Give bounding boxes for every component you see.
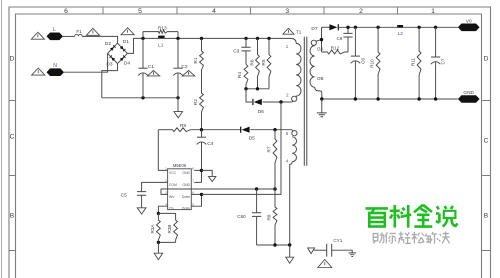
warning triangle after F1 bbox=[86, 28, 99, 35]
diode D2 (bridge NW) bbox=[110, 45, 116, 51]
connector V0 bbox=[458, 24, 480, 32]
transformer T1 primary winding bbox=[296, 43, 302, 97]
inductor L1 bbox=[158, 36, 164, 38]
secondary dot circle OA pin bbox=[311, 40, 316, 45]
wire primary bottom rail bbox=[102, 97, 178, 99]
junction VCC line at R7 bbox=[273, 128, 276, 131]
svg-text:R10: R10 bbox=[369, 59, 374, 68]
svg-text:7: 7 bbox=[192, 179, 194, 183]
wire CY1 right bbox=[332, 250, 353, 253]
wire CS pin to sense resistors bbox=[158, 206, 167, 213]
wire aux pin4 return bbox=[290, 162, 293, 245]
wire bridge bottom to return rail bbox=[102, 64, 118, 98]
wire CY1 left bbox=[314, 249, 327, 251]
junction IC ground node bbox=[200, 169, 203, 172]
svg-text:1: 1 bbox=[431, 8, 435, 15]
svg-text:4: 4 bbox=[286, 158, 289, 163]
svg-text:R6: R6 bbox=[249, 59, 255, 65]
svg-text:D2: D2 bbox=[105, 41, 111, 47]
svg-text:Drain: Drain bbox=[182, 206, 190, 210]
wire Drain pins to drain bus bbox=[191, 194, 201, 206]
svg-text:R3B: R3B bbox=[167, 225, 172, 234]
page edge line bbox=[1, 0, 3, 278]
svg-text:T1: T1 bbox=[296, 29, 302, 35]
wire rail to primary ground bbox=[177, 98, 179, 112]
svg-text:C3: C3 bbox=[233, 49, 239, 55]
resistor R7 bbox=[273, 130, 277, 189]
capacitor C4 (polarized) bbox=[197, 136, 206, 138]
svg-text:R5: R5 bbox=[261, 59, 267, 65]
svg-text:8: 8 bbox=[192, 167, 194, 171]
warning triangle near C2 bbox=[182, 71, 194, 76]
capacitor C9 bbox=[343, 33, 352, 37]
junction output rail at C6 bbox=[354, 26, 357, 29]
capacitor C5 bbox=[137, 192, 146, 196]
connector GND bbox=[458, 95, 480, 103]
svg-text:D7: D7 bbox=[311, 26, 317, 32]
svg-text:3: 3 bbox=[285, 8, 289, 15]
svg-text:Drain: Drain bbox=[182, 195, 190, 199]
junction top rail at C3 bbox=[244, 37, 247, 40]
wire L to fuse bbox=[63, 35, 75, 37]
svg-text:GND: GND bbox=[182, 171, 190, 175]
ground arrow CY1 left bbox=[308, 248, 315, 254]
connector L bbox=[47, 33, 64, 41]
capacitor C1 (polarized) bbox=[138, 67, 147, 69]
svg-text:F1: F1 bbox=[76, 29, 82, 34]
warning triangle near C1 bbox=[147, 71, 159, 76]
svg-text:2: 2 bbox=[286, 93, 289, 98]
IC U1 box bbox=[168, 169, 192, 210]
pin 2 circle bbox=[292, 96, 297, 101]
junction top rail at R1 bbox=[200, 37, 203, 40]
wire output bottom rail bbox=[322, 98, 458, 100]
warning triangle near L input bbox=[31, 32, 44, 39]
junction OA node bbox=[320, 38, 323, 41]
junction clamp bottom mid bbox=[256, 87, 259, 90]
svg-text:D6: D6 bbox=[258, 109, 264, 115]
svg-text:COM: COM bbox=[169, 183, 177, 187]
svg-text:D: D bbox=[484, 56, 489, 63]
wire top DC rail bbox=[143, 38, 296, 43]
wire D6 to switch node bbox=[263, 101, 294, 103]
resistor R6 bbox=[256, 38, 260, 88]
wire D5 to aux pin 5 bbox=[250, 130, 293, 132]
ground arrow sense bbox=[154, 253, 163, 259]
watermark text 百科全说 bbox=[366, 208, 389, 226]
wire clamp to D6 bbox=[246, 89, 252, 102]
wire clamp bottom bbox=[246, 88, 269, 90]
wire ground node to arrow bbox=[202, 170, 213, 176]
svg-text:D5: D5 bbox=[249, 135, 255, 141]
svg-text:M5E06: M5E06 bbox=[173, 163, 187, 168]
junction bottom rail C7 bbox=[434, 97, 437, 100]
resistor R3A bbox=[157, 213, 161, 242]
svg-text:R12: R12 bbox=[331, 45, 340, 50]
left zone ticks bbox=[9, 101, 16, 251]
diode D6 bbox=[254, 99, 262, 105]
resistor R1 bbox=[200, 38, 204, 72]
svg-text:C4: C4 bbox=[207, 141, 213, 147]
svg-text:GND: GND bbox=[182, 183, 190, 187]
resistor R13 bypass loop bbox=[143, 30, 178, 38]
wire fuse to bridge top bbox=[82, 36, 117, 43]
junction feedback at C60 bbox=[255, 187, 258, 190]
svg-text:C1: C1 bbox=[148, 64, 154, 70]
wire COM pin to C5 bbox=[142, 182, 168, 191]
junction bottom rail R10 bbox=[376, 97, 379, 100]
svg-text:B: B bbox=[484, 213, 489, 220]
ground arrow aux bbox=[286, 257, 294, 263]
junction bottom rail C6 bbox=[354, 97, 357, 100]
diode D5 bbox=[242, 127, 250, 133]
diode D1 (bridge NE) bbox=[120, 46, 126, 52]
svg-text:4: 4 bbox=[212, 8, 216, 15]
svg-text:GND: GND bbox=[463, 90, 474, 96]
capacitor C60 bbox=[252, 213, 261, 217]
wire secondary bottom OB exit bbox=[315, 87, 322, 99]
connector N bbox=[47, 68, 65, 76]
svg-text:C9: C9 bbox=[336, 36, 342, 41]
svg-text:CY1: CY1 bbox=[333, 238, 342, 243]
capacitor C2 (polarized) bbox=[173, 67, 182, 69]
wire feedback ground rail bbox=[257, 244, 290, 246]
resistor R10 bbox=[376, 27, 380, 99]
resistor R8 bbox=[273, 189, 277, 245]
junction ground rail at aux return bbox=[288, 243, 291, 246]
svg-text:R3A: R3A bbox=[150, 224, 155, 234]
warning triangle near T1 bbox=[283, 28, 294, 34]
svg-text:L: L bbox=[53, 27, 56, 33]
svg-text:C7: C7 bbox=[441, 58, 446, 64]
wire sense top to R3B bbox=[158, 213, 175, 220]
junction output rail at R10 bbox=[376, 26, 379, 29]
junction drain stub bbox=[200, 193, 203, 196]
svg-text:2: 2 bbox=[359, 8, 363, 15]
svg-text:OB: OB bbox=[317, 76, 324, 81]
wire output rail bbox=[338, 26, 458, 28]
junction ground rail at R8 bbox=[273, 243, 276, 246]
diode D7 bbox=[329, 24, 337, 30]
capacitor C6 (polarized) bbox=[351, 55, 360, 57]
wire INV feedback line bbox=[161, 189, 275, 194]
svg-text:6: 6 bbox=[64, 8, 68, 15]
resistor R4 bbox=[244, 64, 248, 88]
svg-text:5: 5 bbox=[286, 131, 289, 136]
junction bottom rail OB bbox=[320, 97, 323, 100]
resistor R11 bbox=[417, 27, 421, 99]
junction sense top bbox=[157, 212, 160, 215]
capacitor CY1 bbox=[327, 244, 332, 257]
svg-text:D4: D4 bbox=[124, 61, 130, 67]
svg-text:R8: R8 bbox=[267, 214, 272, 220]
svg-text:OA: OA bbox=[317, 46, 325, 51]
svg-text:C60: C60 bbox=[237, 214, 246, 219]
wire R9 to D5 bbox=[191, 129, 241, 131]
junction VCC line at C4 bbox=[200, 128, 203, 131]
inductor L2 bbox=[397, 25, 403, 28]
svg-text:V0: V0 bbox=[466, 18, 472, 24]
svg-text:B: B bbox=[10, 213, 15, 220]
fuse F1 bbox=[75, 34, 83, 36]
svg-text:R1: R1 bbox=[193, 57, 199, 63]
ground arrow IC bbox=[209, 176, 216, 181]
wire aux return to ground bbox=[289, 245, 291, 257]
svg-text:5: 5 bbox=[138, 8, 142, 15]
ground arrow primary bus bbox=[174, 112, 183, 118]
wire VCC line bbox=[158, 129, 172, 131]
wire VCC drop to pin bbox=[158, 130, 167, 171]
diode D3 (bridge SW) bbox=[110, 55, 116, 61]
svg-text:C5: C5 bbox=[121, 193, 127, 199]
resistor R9 bbox=[172, 128, 190, 132]
warning triangle near N input bbox=[32, 68, 45, 75]
wire secondary ground drop bbox=[321, 99, 323, 113]
svg-text:R9: R9 bbox=[180, 123, 186, 129]
junction sense bottom bbox=[157, 241, 160, 244]
svg-text:C2: C2 bbox=[181, 64, 187, 70]
right zone ticks bbox=[482, 101, 491, 251]
earth ground CY1 bbox=[349, 253, 357, 257]
top zone separators bbox=[103, 7, 398, 14]
svg-text:L2: L2 bbox=[398, 31, 404, 37]
svg-text:L1: L1 bbox=[158, 42, 164, 48]
wire OA node vertical bbox=[321, 27, 323, 52]
junction top rail at R13 right bbox=[176, 37, 179, 40]
svg-text:N: N bbox=[53, 63, 57, 69]
junction top rail at R6 bbox=[256, 37, 259, 40]
svg-text:C6: C6 bbox=[360, 58, 365, 64]
wire OA pin to rectifier node bbox=[316, 40, 321, 42]
wire output rail left bbox=[322, 26, 331, 28]
watermark subtitle 助你轻松解决 bbox=[373, 232, 450, 244]
wire N to bridge left bbox=[64, 53, 108, 72]
svg-text:1: 1 bbox=[286, 44, 289, 49]
svg-text:R11: R11 bbox=[410, 58, 415, 67]
junction output rail at C9 bbox=[346, 26, 349, 29]
ground arrow C5 bbox=[137, 208, 146, 214]
svg-text:CS: CS bbox=[169, 206, 174, 210]
junction C1 bottom bbox=[141, 96, 144, 99]
svg-text:INV: INV bbox=[169, 195, 175, 199]
resistor R5 bbox=[267, 38, 271, 88]
diode D4 (bridge SE) bbox=[120, 55, 126, 61]
bridge diamond wires bbox=[108, 43, 128, 63]
svg-text:D1: D1 bbox=[123, 39, 129, 45]
junction feedback at R7 R8 bbox=[273, 187, 276, 190]
junction C2 bottom bbox=[176, 96, 179, 99]
earth ground secondary bbox=[317, 113, 327, 117]
transformer T1 aux winding bbox=[292, 137, 296, 162]
svg-text:C: C bbox=[484, 138, 489, 145]
wire C5 to ground bbox=[141, 195, 143, 208]
wire C4 to GND pins bbox=[194, 142, 201, 182]
svg-text:D: D bbox=[10, 56, 15, 63]
resistor R12 bbox=[322, 50, 349, 54]
wire sense bottom bbox=[158, 241, 175, 243]
svg-text:R2: R2 bbox=[193, 99, 199, 105]
junction output rail at C7 bbox=[434, 26, 437, 29]
transformer core bbox=[304, 37, 307, 166]
junction bottom rail R11 bbox=[417, 97, 420, 100]
pin 5 circle bbox=[292, 131, 297, 136]
svg-text:R13: R13 bbox=[158, 25, 167, 31]
svg-text:R4: R4 bbox=[237, 72, 243, 78]
wire bridge right to DC rail bbox=[127, 38, 143, 53]
capacitor C7 (polarized) bbox=[431, 56, 440, 58]
resistor R2 bbox=[200, 72, 204, 130]
junction switch node bbox=[279, 100, 282, 103]
junction top rail at R13 left bbox=[141, 37, 144, 40]
wire sense to ground bbox=[157, 242, 159, 253]
capacitor C3 bbox=[241, 47, 250, 51]
transformer T1 secondary winding bbox=[310, 46, 315, 88]
junction clamp bottom left bbox=[244, 87, 247, 90]
warning triangle below CY1 bbox=[318, 260, 332, 268]
wire drain bus bbox=[202, 102, 282, 194]
warning triangle above bridge bbox=[121, 28, 134, 35]
resistor R3B bbox=[174, 220, 178, 242]
svg-text:VCC: VCC bbox=[169, 171, 177, 175]
svg-text:R7: R7 bbox=[266, 146, 271, 152]
junction top rail at R5 bbox=[267, 37, 270, 40]
junction output rail at R11 bbox=[417, 26, 420, 29]
svg-text:C: C bbox=[10, 134, 15, 141]
